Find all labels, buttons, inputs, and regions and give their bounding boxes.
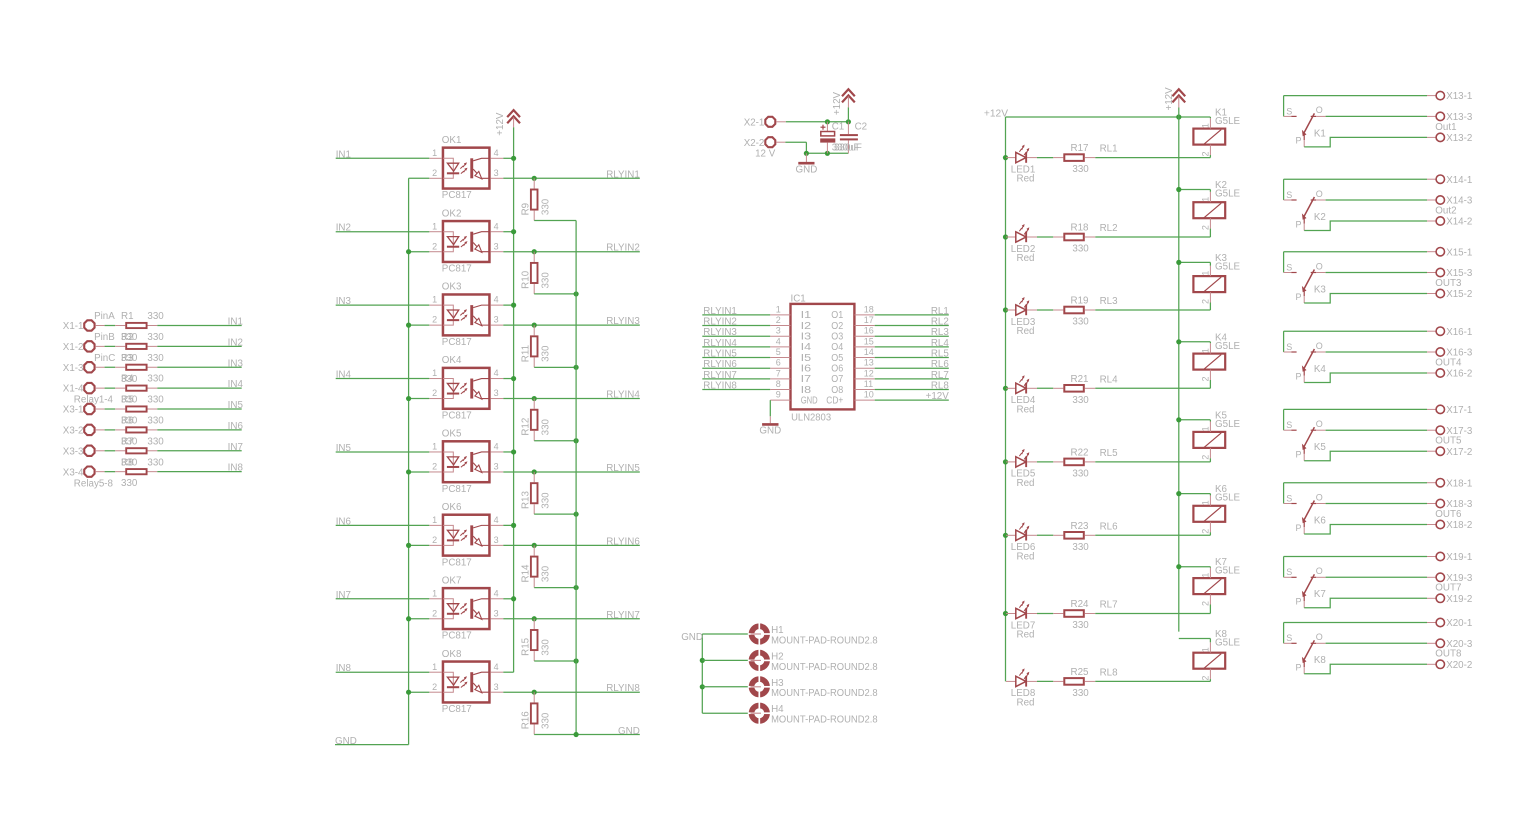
ULN pin 3 input I3 bbox=[770, 326, 812, 343]
svg-text:RL7: RL7 bbox=[1100, 600, 1118, 611]
ULN pin 12 output O7 bbox=[831, 368, 874, 385]
connector pad X13-2 bbox=[1436, 133, 1472, 144]
wire P to X16-2 bbox=[1304, 373, 1436, 383]
svg-text:3: 3 bbox=[494, 241, 499, 251]
wire pin2 to GND bus bbox=[409, 324, 430, 326]
svg-text:OUT7: OUT7 bbox=[1435, 583, 1461, 594]
svg-text:1: 1 bbox=[1201, 348, 1211, 353]
wire net IN4 left segment bbox=[105, 387, 116, 389]
svg-text:330: 330 bbox=[147, 436, 164, 447]
ULN pin 1 input I1 bbox=[770, 304, 811, 321]
svg-text:R25: R25 bbox=[1071, 667, 1090, 678]
svg-text:O: O bbox=[1316, 105, 1323, 115]
svg-text:OUT5: OUT5 bbox=[1435, 436, 1462, 447]
LED LED2 Red bbox=[1003, 224, 1037, 264]
wire + net label RLYIN5 bbox=[503, 463, 640, 474]
wire LED2 cathode bbox=[1037, 236, 1053, 238]
svg-text:RLYIN2: RLYIN2 bbox=[606, 243, 640, 254]
svg-text:PC817: PC817 bbox=[442, 704, 472, 715]
connector pad X3-4 bbox=[63, 466, 105, 478]
svg-text:R2: R2 bbox=[121, 332, 134, 343]
svg-text:RLYIN4: RLYIN4 bbox=[606, 390, 640, 401]
svg-text:RL4: RL4 bbox=[931, 338, 950, 349]
svg-text:RLYIN6: RLYIN6 bbox=[606, 536, 640, 547]
svg-text:X18-1: X18-1 bbox=[1446, 478, 1472, 489]
svg-text:ULN2803: ULN2803 bbox=[791, 413, 832, 424]
svg-text:R12: R12 bbox=[520, 418, 531, 436]
svg-text:GND: GND bbox=[801, 395, 818, 406]
svg-text:O: O bbox=[1316, 632, 1323, 642]
resistor R15 330 (pull-down) bbox=[520, 616, 551, 661]
svg-text:330: 330 bbox=[541, 565, 552, 582]
wire + net label IN4 (opto input) bbox=[336, 370, 430, 381]
svg-text:X15-1: X15-1 bbox=[1446, 247, 1472, 258]
wire GND vertical bus (resistor bottoms) bbox=[575, 221, 577, 735]
wire + net label GND (resistor bus bottom) bbox=[534, 726, 640, 737]
svg-text:4: 4 bbox=[494, 662, 499, 672]
svg-text:X1-1: X1-1 bbox=[63, 321, 84, 332]
ground symbol GND (ULN) bbox=[759, 416, 781, 436]
wire pin4 to +12V bus bbox=[503, 229, 516, 234]
svg-text:13: 13 bbox=[864, 358, 874, 368]
svg-text:OK4: OK4 bbox=[442, 355, 462, 366]
wire + net label RLYIN3 (ULN input) bbox=[702, 327, 770, 338]
wire P to X15-2 bbox=[1304, 294, 1436, 304]
wire pin2 to GND bus bbox=[409, 691, 430, 693]
connector pad X19-2 bbox=[1436, 594, 1472, 605]
wire + net label IN5 (opto input) bbox=[336, 443, 430, 454]
wire coil K7 pin1 to +12V bus bbox=[1176, 564, 1210, 569]
relay coil K8 G5LE bbox=[1193, 629, 1240, 681]
svg-text:330: 330 bbox=[1072, 317, 1089, 328]
svg-text:16: 16 bbox=[864, 326, 874, 336]
svg-text:OUT6: OUT6 bbox=[1435, 509, 1462, 520]
connector pad X16-2 bbox=[1436, 369, 1472, 380]
wire + net label RLYIN1 bbox=[503, 169, 640, 180]
svg-text:2: 2 bbox=[1201, 376, 1211, 381]
svg-text:X16-1: X16-1 bbox=[1446, 327, 1472, 338]
svg-text:2: 2 bbox=[1201, 151, 1211, 156]
relay coil K2 G5LE bbox=[1193, 180, 1240, 230]
svg-text:R24: R24 bbox=[1071, 599, 1090, 610]
svg-text:O: O bbox=[1316, 341, 1323, 351]
svg-text:G5LE: G5LE bbox=[1215, 341, 1241, 352]
wire LED5 cathode bbox=[1037, 461, 1053, 463]
svg-text:R1: R1 bbox=[121, 311, 134, 322]
svg-text:G5LE: G5LE bbox=[1215, 189, 1241, 200]
connector pad X15-2 bbox=[1436, 289, 1472, 300]
svg-text:O6: O6 bbox=[831, 364, 843, 375]
wire P to X13-2 bbox=[1304, 137, 1436, 147]
svg-text:330: 330 bbox=[147, 457, 164, 468]
svg-text:GND: GND bbox=[335, 736, 357, 747]
svg-text:7: 7 bbox=[776, 368, 781, 378]
wire +12V relay coil bus bbox=[1178, 108, 1180, 632]
svg-text:330: 330 bbox=[541, 639, 552, 656]
svg-text:X2-1: X2-1 bbox=[744, 117, 765, 128]
wire O to X17-3 bbox=[1326, 429, 1436, 431]
wire + net label IN6 (opto input) bbox=[336, 516, 430, 527]
svg-text:O3: O3 bbox=[831, 332, 843, 343]
svg-text:K2: K2 bbox=[1314, 212, 1326, 223]
wire pin2 to GND bus bbox=[409, 398, 430, 400]
svg-text:Out2: Out2 bbox=[1435, 205, 1456, 216]
svg-text:RLYIN8: RLYIN8 bbox=[703, 381, 737, 392]
svg-text:RLYIN2: RLYIN2 bbox=[703, 317, 737, 328]
wire O to X14-3 bbox=[1326, 199, 1436, 201]
relay contact K2 (SPDT switch) bbox=[1284, 179, 1326, 230]
svg-text:X17-2: X17-2 bbox=[1446, 447, 1472, 458]
relay coil K7 G5LE bbox=[1193, 557, 1240, 606]
svg-text:RLYIN5: RLYIN5 bbox=[703, 349, 737, 360]
svg-text:14: 14 bbox=[864, 347, 874, 357]
+12V power symbol (relay bus) bbox=[1164, 87, 1185, 111]
resistor R3 330 bbox=[115, 353, 164, 385]
wire + net label RLYIN6 (ULN input) bbox=[702, 359, 770, 370]
svg-text:P: P bbox=[1296, 371, 1302, 381]
svg-text:6: 6 bbox=[776, 358, 781, 368]
wire pin2 to GND bus bbox=[409, 471, 430, 473]
svg-text:OK7: OK7 bbox=[442, 575, 462, 586]
wire P to X19-2 bbox=[1304, 598, 1436, 608]
svg-text:G5LE: G5LE bbox=[1215, 493, 1241, 504]
svg-text:PinB: PinB bbox=[94, 332, 115, 343]
svg-text:R3: R3 bbox=[121, 353, 134, 364]
wire R12 bottom to GND bus bbox=[534, 438, 579, 443]
svg-text:X20-2: X20-2 bbox=[1446, 660, 1472, 671]
ULN pin 6 input I6 bbox=[770, 358, 812, 375]
resistor R13 330 (pull-down) bbox=[520, 469, 551, 514]
resistor R22 330 (LED series) bbox=[1053, 447, 1095, 479]
svg-text:R18: R18 bbox=[1071, 223, 1090, 234]
svg-text:5: 5 bbox=[776, 347, 781, 357]
svg-text:X2-2: X2-2 bbox=[744, 138, 765, 149]
wire pin2 to GND bus bbox=[409, 177, 430, 179]
svg-text:GND: GND bbox=[681, 632, 703, 643]
svg-text:330: 330 bbox=[541, 345, 552, 362]
svg-text:330: 330 bbox=[147, 332, 164, 343]
wire + net label RL8 bbox=[875, 381, 950, 392]
resistor R7 330 bbox=[115, 436, 164, 468]
connector pad X20-1 bbox=[1436, 618, 1472, 629]
svg-text:MOUNT-PAD-ROUND2.8: MOUNT-PAD-ROUND2.8 bbox=[771, 662, 878, 673]
connector pad X20-2 bbox=[1436, 660, 1472, 671]
svg-text:2: 2 bbox=[776, 315, 781, 325]
svg-text:Red: Red bbox=[1017, 551, 1035, 562]
wire + net label RLYIN3 bbox=[503, 316, 640, 327]
capacitor C1 330uF (electrolytic) bbox=[820, 122, 859, 154]
svg-text:IN2: IN2 bbox=[336, 223, 351, 234]
svg-text:X17-1: X17-1 bbox=[1446, 405, 1472, 416]
capacitor C2 330uF bbox=[834, 122, 867, 154]
svg-text:RLYIN7: RLYIN7 bbox=[703, 370, 737, 381]
ULN pin 11 output O8 bbox=[831, 379, 874, 396]
svg-text:OK1: OK1 bbox=[442, 135, 462, 146]
svg-text:P: P bbox=[1296, 523, 1302, 533]
connector pad X1-2 bbox=[63, 341, 105, 353]
connector pad X1-4 bbox=[63, 383, 105, 395]
relay contact K8 (SPDT switch) bbox=[1284, 623, 1327, 674]
svg-text:RL2: RL2 bbox=[931, 317, 949, 328]
svg-text:330: 330 bbox=[147, 311, 164, 322]
svg-text:R22: R22 bbox=[1071, 447, 1089, 458]
svg-text:330: 330 bbox=[541, 418, 552, 435]
svg-text:H2: H2 bbox=[771, 651, 784, 662]
wire + net label IN2 (opto input) bbox=[336, 223, 430, 234]
relay coil K3 G5LE bbox=[1193, 253, 1240, 304]
svg-text:IN3: IN3 bbox=[228, 358, 244, 369]
svg-text:R13: R13 bbox=[520, 491, 531, 510]
svg-text:X13-1: X13-1 bbox=[1446, 91, 1472, 102]
connector pad X16-3 bbox=[1436, 348, 1473, 359]
svg-text:2: 2 bbox=[432, 388, 437, 398]
svg-text:R8: R8 bbox=[121, 457, 134, 468]
svg-text:RLYIN1: RLYIN1 bbox=[606, 169, 640, 180]
svg-text:9: 9 bbox=[776, 390, 781, 400]
IC IC1 ULN2803 body bbox=[791, 294, 855, 424]
svg-text:I3: I3 bbox=[801, 332, 812, 343]
svg-text:O8: O8 bbox=[831, 385, 843, 396]
svg-text:I2: I2 bbox=[801, 321, 812, 332]
wire GND run bbox=[785, 142, 848, 156]
svg-text:R17: R17 bbox=[1071, 143, 1089, 154]
svg-text:G5LE: G5LE bbox=[1215, 419, 1241, 430]
svg-text:12 V: 12 V bbox=[755, 149, 776, 160]
wire pin4 to +12V bus bbox=[503, 156, 516, 161]
svg-text:X19-2: X19-2 bbox=[1446, 594, 1472, 605]
svg-text:IN8: IN8 bbox=[336, 663, 352, 674]
svg-text:RL8: RL8 bbox=[931, 381, 950, 392]
svg-text:OK5: OK5 bbox=[442, 429, 462, 440]
optocoupler OK3 PC817 bbox=[429, 282, 503, 348]
svg-text:1: 1 bbox=[1201, 197, 1211, 202]
svg-text:15: 15 bbox=[864, 336, 874, 346]
resistor R25 330 (LED series) bbox=[1053, 667, 1095, 699]
ULN pin 15 output O4 bbox=[831, 336, 874, 353]
svg-text:330: 330 bbox=[121, 478, 138, 489]
connector pad X14-2 bbox=[1436, 217, 1472, 228]
svg-text:X1-3: X1-3 bbox=[63, 363, 84, 374]
svg-text:OK8: OK8 bbox=[442, 649, 462, 660]
ULN pin 10 CD+ to +12V bbox=[826, 390, 949, 407]
connector pad X19-3 bbox=[1436, 573, 1473, 584]
svg-text:IN6: IN6 bbox=[336, 516, 352, 527]
wire + net label IN7 bbox=[157, 442, 243, 453]
svg-text:X1-2: X1-2 bbox=[63, 342, 84, 353]
svg-text:OUT3: OUT3 bbox=[1435, 278, 1462, 289]
wire +12V top rail bbox=[1006, 114, 1211, 119]
wire pin4 to +12V bus bbox=[503, 596, 516, 601]
svg-text:+12V: +12V bbox=[926, 391, 950, 402]
svg-text:330: 330 bbox=[541, 198, 552, 215]
wire pin4 to +12V bus bbox=[503, 376, 516, 381]
svg-text:330: 330 bbox=[147, 374, 164, 385]
mount pad H2 MOUNT-PAD-ROUND2.8 bbox=[702, 649, 878, 673]
svg-text:4: 4 bbox=[494, 515, 499, 525]
svg-text:OK6: OK6 bbox=[442, 502, 462, 513]
connector pad X2-1 bbox=[744, 117, 786, 129]
wire + net label RLYIN7 (ULN input) bbox=[702, 370, 770, 381]
svg-text:1: 1 bbox=[1201, 573, 1211, 578]
connector pad X17-3 bbox=[1436, 426, 1473, 437]
svg-text:R11: R11 bbox=[520, 345, 531, 362]
svg-text:Relay5-8: Relay5-8 bbox=[74, 478, 114, 489]
wire O to X13-3 bbox=[1326, 115, 1436, 117]
resistor R21 330 (LED series) bbox=[1053, 374, 1095, 406]
svg-text:S: S bbox=[1286, 420, 1292, 430]
wire coil K8 pin2 to RL8 bbox=[1209, 679, 1211, 681]
svg-text:4: 4 bbox=[494, 368, 499, 378]
optocoupler OK7 PC817 bbox=[429, 575, 503, 641]
resistor R10 330 (pull-down) bbox=[520, 249, 551, 294]
ULN pin 18 output O1 bbox=[831, 304, 874, 321]
wire P to X14-2 bbox=[1304, 221, 1436, 231]
svg-text:1: 1 bbox=[432, 662, 437, 672]
svg-text:330: 330 bbox=[147, 416, 164, 427]
connector pad X17-2 bbox=[1436, 447, 1472, 458]
svg-text:X15-2: X15-2 bbox=[1446, 289, 1472, 300]
wire + net label IN8 bbox=[157, 463, 243, 474]
wire LED6 cathode bbox=[1037, 534, 1053, 536]
relay contact K3 (SPDT switch) bbox=[1284, 252, 1327, 303]
svg-text:I4: I4 bbox=[801, 342, 812, 353]
wire net IN3 left segment bbox=[105, 366, 116, 368]
svg-text:IN1: IN1 bbox=[336, 149, 351, 160]
resistor R17 330 (LED series) bbox=[1053, 143, 1095, 175]
svg-text:2: 2 bbox=[1201, 225, 1211, 230]
svg-text:O5: O5 bbox=[831, 353, 843, 364]
relay coil K5 G5LE bbox=[1193, 410, 1240, 460]
svg-text:G5LE: G5LE bbox=[1215, 261, 1241, 272]
wire + net label RL6 bbox=[875, 359, 950, 370]
relay contact K5 (SPDT switch) bbox=[1284, 409, 1327, 460]
svg-text:P: P bbox=[1296, 292, 1302, 302]
LED LED6 Red bbox=[1003, 522, 1037, 562]
wire + net label IN1 bbox=[157, 317, 243, 328]
wire R14 bottom to GND bus bbox=[534, 585, 579, 590]
wire coil K3 pin1 to +12V bus bbox=[1176, 260, 1210, 266]
svg-text:I5: I5 bbox=[801, 353, 812, 364]
svg-text:R21: R21 bbox=[1071, 374, 1089, 385]
connector pad X3-1 bbox=[63, 404, 105, 416]
wire +12V input rail bbox=[786, 107, 851, 124]
svg-text:H3: H3 bbox=[771, 678, 784, 689]
mount pad H1 MOUNT-PAD-ROUND2.8 bbox=[702, 623, 878, 647]
LED LED7 Red bbox=[1003, 601, 1037, 641]
wire + net label RL1 bbox=[875, 306, 949, 317]
svg-text:P: P bbox=[1296, 663, 1302, 673]
svg-text:1: 1 bbox=[432, 221, 437, 231]
ULN pin 7 input I7 bbox=[770, 368, 811, 385]
resistor R18 330 (LED series) bbox=[1053, 223, 1095, 255]
svg-text:RL3: RL3 bbox=[931, 327, 950, 338]
svg-text:RLYIN7: RLYIN7 bbox=[606, 610, 640, 621]
optocoupler OK8 PC817 bbox=[429, 649, 503, 715]
svg-text:MOUNT-PAD-ROUND2.8: MOUNT-PAD-ROUND2.8 bbox=[771, 688, 878, 699]
svg-text:330: 330 bbox=[1072, 395, 1089, 406]
svg-text:K8: K8 bbox=[1314, 655, 1327, 666]
ground symbol GND (supply) bbox=[796, 153, 818, 175]
wire + net label GND (bottom left) bbox=[335, 736, 409, 747]
wire coil K3 pin2 to RL3 bbox=[1209, 303, 1211, 311]
connector pad X18-3 bbox=[1436, 499, 1473, 510]
wire + net label RL1 (to coil) bbox=[1095, 144, 1210, 158]
svg-text:S: S bbox=[1286, 342, 1292, 352]
wire pin4 to +12V bus bbox=[503, 449, 516, 454]
svg-text:IN5: IN5 bbox=[336, 443, 352, 454]
svg-text:1: 1 bbox=[1201, 271, 1211, 276]
connector pad X19-1 bbox=[1436, 552, 1472, 563]
svg-text:4: 4 bbox=[494, 588, 499, 598]
wire O to X18-3 bbox=[1326, 503, 1436, 505]
svg-text:330: 330 bbox=[541, 492, 552, 509]
LED LED4 Red bbox=[1003, 375, 1037, 415]
svg-text:K6: K6 bbox=[1314, 515, 1327, 526]
relay contact K4 (SPDT switch) bbox=[1284, 331, 1327, 382]
svg-text:2: 2 bbox=[432, 682, 437, 692]
svg-text:11: 11 bbox=[864, 379, 873, 389]
svg-text:G5LE: G5LE bbox=[1215, 566, 1241, 577]
svg-text:K1: K1 bbox=[1314, 128, 1326, 139]
svg-text:RL6: RL6 bbox=[931, 359, 950, 370]
relay coil K1 G5LE bbox=[1193, 108, 1240, 157]
svg-text:O: O bbox=[1316, 492, 1323, 502]
wire GND bus (mount pads) bbox=[700, 634, 705, 713]
svg-text:P: P bbox=[1296, 597, 1302, 607]
svg-text:1: 1 bbox=[432, 442, 437, 452]
wire O to X20-3 bbox=[1326, 642, 1436, 644]
svg-text:RL8: RL8 bbox=[1100, 667, 1119, 678]
svg-text:4: 4 bbox=[494, 295, 499, 305]
wire + net label RL5 (to coil) bbox=[1095, 448, 1210, 462]
svg-text:RL1: RL1 bbox=[931, 306, 949, 317]
wire LED3 cathode bbox=[1037, 309, 1053, 311]
svg-text:O: O bbox=[1316, 419, 1323, 429]
resistor R5 330 bbox=[115, 395, 164, 427]
wire net IN6 left segment bbox=[105, 429, 116, 431]
svg-text:330uF: 330uF bbox=[834, 143, 862, 154]
svg-text:R14: R14 bbox=[520, 564, 531, 583]
svg-text:2: 2 bbox=[432, 608, 437, 618]
svg-text:17: 17 bbox=[864, 315, 874, 325]
wire + net label RL4 bbox=[875, 338, 950, 349]
wire coil K1 pin2 to RL1 bbox=[1209, 155, 1211, 158]
svg-text:1: 1 bbox=[776, 304, 781, 314]
wire + net label RL7 bbox=[875, 370, 949, 381]
relay contact K6 (SPDT switch) bbox=[1284, 483, 1327, 534]
wire R10 bottom to GND bus bbox=[534, 291, 579, 296]
svg-text:R23: R23 bbox=[1071, 521, 1090, 532]
ULN pin 2 input I2 bbox=[770, 315, 811, 332]
svg-text:OK2: OK2 bbox=[442, 208, 462, 219]
wire + net label RLYIN4 bbox=[503, 390, 640, 401]
svg-text:4: 4 bbox=[776, 336, 781, 346]
svg-text:2: 2 bbox=[432, 535, 437, 545]
wire + net label RL3 (to coil) bbox=[1095, 296, 1210, 310]
wire coil K2 pin2 to RL2 bbox=[1209, 229, 1211, 237]
wire coil K5 pin1 to +12V bus bbox=[1176, 417, 1210, 422]
svg-text:IN4: IN4 bbox=[336, 370, 352, 381]
svg-text:S: S bbox=[1286, 493, 1292, 503]
wire + net label RL5 bbox=[875, 349, 950, 360]
svg-text:1: 1 bbox=[1201, 647, 1211, 652]
resistor R16 330 (pull-down) bbox=[520, 690, 551, 735]
svg-text:OK3: OK3 bbox=[442, 282, 462, 293]
resistor R6 330 bbox=[115, 416, 164, 448]
+12V power symbol (opto bus) bbox=[495, 110, 520, 136]
resistor R1 330 bbox=[115, 311, 164, 343]
svg-text:4: 4 bbox=[494, 221, 499, 231]
